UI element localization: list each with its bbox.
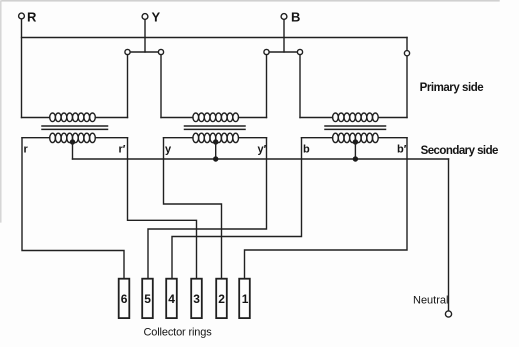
svg-text:2: 2 [218,292,225,306]
wire Y drop [144,20,146,53]
svg-text:5: 5 [144,292,151,306]
scan edge artifact top [2,0,499,2]
wire b to ring 4 [172,138,302,279]
collector ring 5 [142,279,153,318]
wire R bus [22,37,408,39]
terminal circle Y left [125,49,130,54]
svg-text:b′: b′ [397,144,407,156]
svg-text:1: 1 [242,292,249,306]
svg-text:y: y [165,144,172,156]
svg-text:r: r [24,144,29,156]
terminal R [19,13,25,19]
wire y prime to ring 5 [148,138,267,279]
svg-text:3: 3 [193,292,200,306]
transformer T2 primary winding [161,113,267,122]
svg-text:b: b [303,144,310,156]
transformer T1 primary winding [22,113,128,122]
svg-text:Collector rings: Collector rings [144,327,213,339]
terminal Y [142,14,148,20]
wire R drop [21,19,23,118]
wire T2 tap drop [215,142,217,159]
scan edge artifact left [0,1,2,222]
terminal circle B left [264,49,269,54]
wire Y tee bar [128,51,162,53]
T1 center tap junction [70,139,75,144]
wire primary T1 right drop [127,52,129,118]
transformer T3 secondary winding [302,133,408,142]
collector ring 2 [216,279,227,318]
wire B drop [283,20,285,53]
terminal circle on R right drop [404,51,409,56]
svg-text:6: 6 [121,292,128,306]
collector ring 3 [191,279,202,318]
svg-text:Neutral: Neutral [413,295,448,307]
terminal circle Y right [158,49,163,54]
terminal Neutral [445,311,451,317]
wire T3 tap drop [354,142,356,159]
svg-text:y′: y′ [258,144,267,156]
collector ring 4 [166,279,177,318]
svg-text:Secondary side: Secondary side [421,145,498,157]
wire r prime to ring 3 [128,138,197,279]
wire R right drop [406,38,408,118]
node T3 tap on neutral bus [353,156,358,161]
transformer T2 core [185,126,246,129]
terminal B [281,14,287,20]
svg-text:R: R [27,10,37,25]
wire y to ring 2 [164,138,222,279]
wire primary T3 left drop [299,52,301,118]
wire neutral bus [73,158,449,160]
T3 center tap junction [353,139,358,144]
wire primary T2 right drop [266,52,268,118]
svg-text:r′: r′ [119,144,126,156]
transformer T2 secondary winding [164,133,267,142]
transformer T1 secondary winding [22,133,128,142]
svg-text:Primary side: Primary side [420,82,484,94]
wire primary T2 left drop [160,52,162,118]
collector ring 1 [239,279,250,318]
T2 center tap junction [213,139,218,144]
transformer T1 core [42,126,108,129]
wire neutral drop [448,159,450,311]
transformer T3 primary winding [300,113,407,122]
svg-text:Y: Y [152,10,161,25]
wire B tee bar [267,51,301,53]
wire b prime to ring 1 [245,138,408,279]
node T2 tap on neutral bus [213,156,218,161]
svg-text:4: 4 [168,292,175,306]
transformer T3 core [325,126,386,129]
terminal circle B right [297,49,302,54]
svg-text:B: B [291,10,300,25]
collector ring 6 [119,279,130,318]
wire T1 tap drop [72,142,74,159]
wire r to ring 6 [22,138,124,279]
